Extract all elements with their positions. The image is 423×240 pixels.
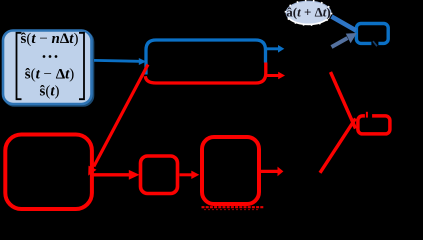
red line: upper diagonal into right small red block: [331, 72, 356, 129]
red line: lower diagonal into right small red block: [320, 119, 356, 173]
arrow: middle block blue output: [266, 47, 279, 50]
node: small red block: [141, 156, 178, 194]
node: top-right blue block: [356, 24, 388, 44]
arrow: big red block to small red block: [93, 173, 130, 176]
middle block red half (bottom-right): [145, 63, 265, 84]
node: right small red block: [358, 116, 390, 134]
right bracket of vector: [79, 33, 84, 99]
arrow: vector box to middle block: [94, 59, 140, 63]
vector row 2 dots: [43, 55, 46, 58]
arrow: middle block down-left into big red block: [94, 65, 148, 167]
node: big red block (bottom-left): [5, 135, 92, 210]
dark tick in notch: [373, 41, 377, 46]
blue line: ellipse to top-right blue block: [332, 17, 357, 31]
node: prediction ellipse: [286, 1, 331, 24]
node: input state vector box: [3, 31, 92, 105]
node: input state vector box shadow: [5, 32, 94, 106]
svg-text:â(t + Δt): â(t + Δt): [286, 5, 331, 20]
node: third red block: [202, 137, 259, 204]
black notch on bottom edge of blue block: [371, 40, 378, 48]
svg-text:ŝ(t − Δt): ŝ(t − Δt): [25, 67, 75, 83]
svg-text:ŝ(t): ŝ(t): [39, 84, 59, 100]
svg-text:ŝ(t − nΔt): ŝ(t − nΔt): [21, 31, 79, 47]
arrow: third red block output: [260, 170, 278, 173]
middle block blue half (top-left): [146, 40, 266, 75]
arrow: middle block red output: [267, 74, 279, 77]
red text fragment under third block: [202, 206, 264, 208]
left bracket of vector: [17, 33, 22, 99]
black notch on top edge of right red block: [365, 112, 372, 121]
red tick in notch: [366, 112, 368, 118]
arrow: small red block to third red block: [180, 173, 193, 176]
arrow: slate diagonal into top-right blue block: [332, 38, 348, 47]
